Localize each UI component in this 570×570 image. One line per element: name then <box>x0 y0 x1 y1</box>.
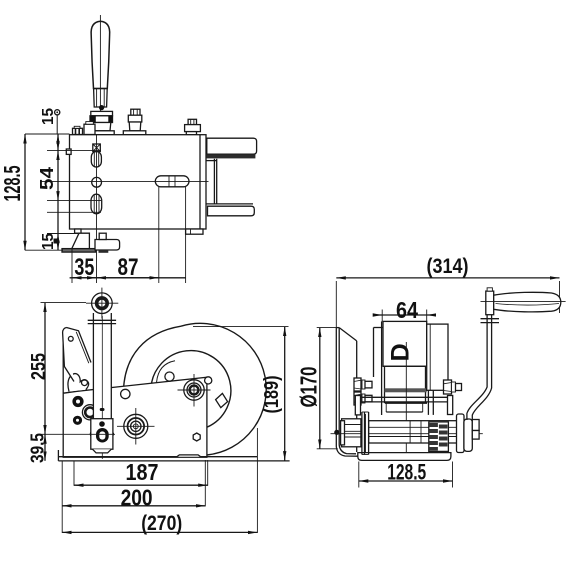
bolt dot on clamp <box>99 105 104 110</box>
dim (270) <box>256 428 258 533</box>
clamp row1 <box>91 111 113 115</box>
base bar <box>58 456 257 458</box>
clamp row2 black jaws <box>90 116 113 123</box>
pawl step left <box>75 229 81 233</box>
terminal block B <box>84 124 95 134</box>
lever shaft white fill <box>93 313 111 419</box>
hex nut lower <box>193 433 200 441</box>
washer strips left (front of axle) <box>362 412 369 455</box>
drum left flange <box>373 328 375 378</box>
svg-text:(314): (314) <box>427 255 469 278</box>
TOP VIEW GROUP <box>0 15 257 283</box>
diamond slot on flange <box>216 393 228 407</box>
right plate bolt <box>444 380 452 394</box>
svg-text:128.5: 128.5 <box>0 165 25 201</box>
terminal block A <box>73 128 83 134</box>
arm clamp <box>481 318 500 320</box>
ratchet gear hatched <box>429 422 449 452</box>
handle hub <box>486 291 494 315</box>
block foot <box>93 449 112 453</box>
shaft bolt pill <box>100 408 105 411</box>
block top bolt <box>99 421 105 427</box>
barrel lower sides <box>384 366 386 403</box>
dim 128.5 vertical <box>24 134 26 250</box>
pawl block right <box>95 240 120 251</box>
crank sleeve <box>464 419 472 451</box>
svg-text:35: 35 <box>74 254 94 281</box>
small foot under body right <box>186 229 203 234</box>
drum centerline vertical <box>405 342 407 453</box>
dim 255 ext line <box>41 302 87 304</box>
svg-text:39.5: 39.5 <box>27 433 48 463</box>
washer plate <box>457 414 465 453</box>
ringed boss <box>82 405 97 420</box>
svg-text:15: 15 <box>40 108 57 125</box>
hub black dot <box>334 430 339 435</box>
dim 39.5 ext line <box>41 433 116 435</box>
svg-text:Ø170: Ø170 <box>296 367 322 408</box>
clamp base plate <box>88 131 114 135</box>
drum flange top bar (plan) <box>207 138 257 154</box>
drum center bolt rings <box>184 380 204 400</box>
bolt head on axis <box>93 144 101 152</box>
hub rings <box>124 414 148 438</box>
left bolts on plate <box>354 378 361 391</box>
FRONT VIEW GROUP <box>296 255 566 488</box>
clamp stem <box>92 123 110 131</box>
drum barrel <box>383 321 427 366</box>
grip eye circle <box>92 293 113 314</box>
stud with head (left of body, above) <box>55 110 60 115</box>
pivot side bosses <box>90 432 91 437</box>
svg-text:(189): (189) <box>261 376 283 414</box>
horizontal slot (pill) right-center <box>155 176 189 187</box>
svg-text:128.5: 128.5 <box>387 460 426 485</box>
svg-text:255: 255 <box>27 353 50 380</box>
handle centerline <box>481 301 566 303</box>
svg-text:15: 15 <box>40 233 57 250</box>
svg-text:64: 64 <box>396 297 418 323</box>
axle <box>369 421 465 443</box>
barrel mid line <box>383 365 427 367</box>
pawl trapezoid <box>72 233 90 248</box>
slot 1 (pill) <box>91 152 101 168</box>
rope end arc <box>157 361 176 383</box>
dim (314) <box>336 277 559 279</box>
axle centerline <box>331 433 483 435</box>
dim chain vertical x58 <box>57 134 59 151</box>
lever lower block <box>91 419 113 450</box>
bar end cap black <box>54 239 59 244</box>
lever axis line <box>96 135 98 252</box>
svg-text:187: 187 <box>126 459 159 485</box>
barrel edge (plan) <box>206 160 217 162</box>
hole at plate corner <box>205 377 212 384</box>
svg-text:D: D <box>386 343 414 361</box>
hole on drum left <box>165 372 174 381</box>
tie rod <box>355 396 360 415</box>
pawl bar (dark) <box>62 249 96 253</box>
handle grip (plan) <box>91 21 110 88</box>
right knob <box>188 119 196 124</box>
slot1 bolt shaft lines <box>93 152 95 168</box>
left plate edge <box>356 341 358 452</box>
base channel <box>358 453 451 461</box>
grip centerline <box>99 15 101 111</box>
dim 187 <box>73 462 75 486</box>
body inner right vertical <box>199 135 201 229</box>
middle knob <box>131 109 140 115</box>
slot 2 (pill) <box>91 194 102 214</box>
dim Ø170 <box>317 327 338 329</box>
hole on plate left <box>121 389 130 398</box>
drum outer circle (spiral housing) <box>181 323 266 455</box>
view centerline horizontal <box>40 181 209 183</box>
small weld nut on left edge <box>66 149 71 154</box>
side plate <box>63 333 207 457</box>
hub block <box>342 419 361 447</box>
SIDE VIEW GROUP <box>27 288 290 535</box>
dim 255 line <box>44 303 46 435</box>
drum flange bottom bar (plan) <box>206 203 253 205</box>
svg-text:54: 54 <box>37 167 57 190</box>
block pivot pill <box>96 428 109 443</box>
svg-text:200: 200 <box>121 485 153 511</box>
black bolt 2 <box>73 416 82 425</box>
sleeve tabs <box>472 420 479 431</box>
black bolt 1 <box>72 396 83 407</box>
center hole <box>92 177 102 187</box>
grip ferrule <box>94 89 108 108</box>
drum bolt crosshair <box>178 389 211 391</box>
ratchet pawl bump <box>68 374 89 392</box>
dim 128.5 <box>358 462 360 488</box>
handle grip <box>494 292 561 312</box>
bottom dim line 35/87 <box>70 277 186 279</box>
right side plate <box>427 324 448 390</box>
extension ticks left <box>47 150 101 152</box>
drum right flange below plate <box>427 390 429 415</box>
grip eye crosshair <box>86 302 118 304</box>
brake lever (upper-left) <box>63 328 74 382</box>
gearbox body rect <box>70 135 207 229</box>
ferrule inner lines <box>96 89 98 108</box>
dim (189) <box>193 326 289 328</box>
lever hole <box>68 336 73 341</box>
dim 200 <box>61 462 63 534</box>
hub crosshair <box>117 425 155 427</box>
flange bend diagonal <box>339 328 357 341</box>
svg-text:87: 87 <box>118 254 139 281</box>
ext lines top view dims <box>25 133 70 135</box>
dark strip under top bar <box>206 154 255 158</box>
drum inner circle <box>151 351 231 428</box>
svg-text:(270): (270) <box>141 512 182 535</box>
rope guard spiral <box>124 326 181 386</box>
base pad bump <box>177 455 201 457</box>
crank arm <box>467 315 487 420</box>
shaft clamp band <box>88 319 116 321</box>
pawl pivot hole <box>82 380 88 386</box>
rope layers <box>385 402 427 404</box>
bent flange (left plate lip) <box>336 328 358 457</box>
rope band dark <box>385 388 427 392</box>
dim 64 <box>381 310 383 322</box>
dim 39.5 line <box>44 434 46 461</box>
